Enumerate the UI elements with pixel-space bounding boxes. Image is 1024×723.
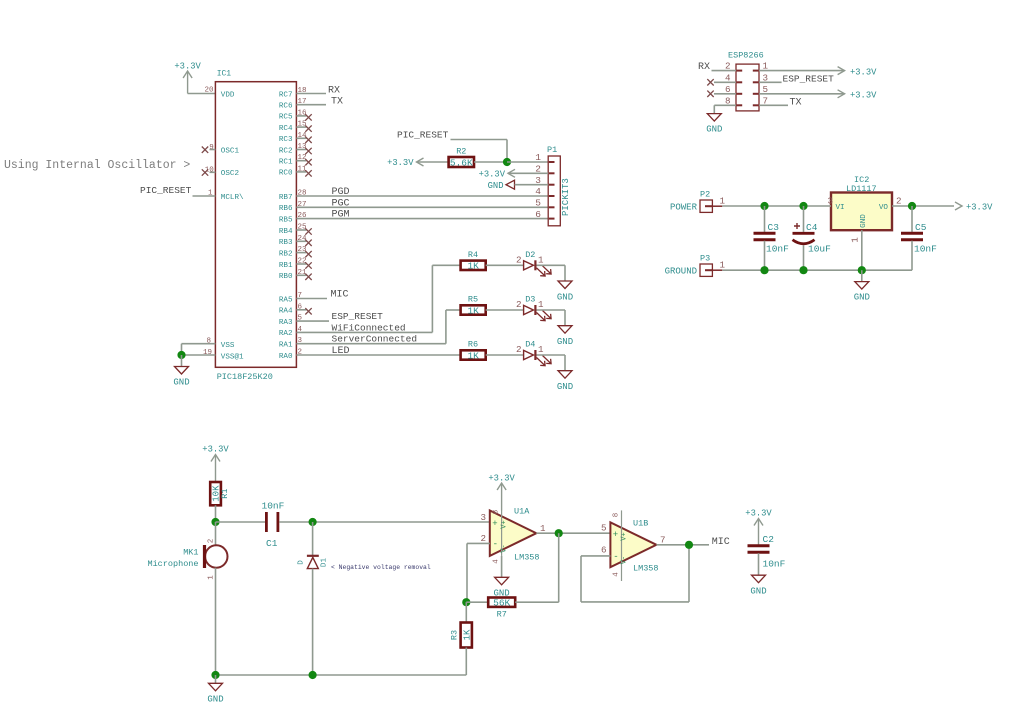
ground GND (ESP) [706,114,722,135]
svg-text:C2: C2 [763,534,775,545]
svg-text:RA5: RA5 [279,296,293,304]
svg-text:RA1: RA1 [279,342,293,350]
wire WiFiConnected riser [431,265,433,332]
resistor R7 [488,598,515,620]
svg-text:R4: R4 [468,250,478,260]
svg-text:20: 20 [204,87,214,95]
svg-text:1K: 1K [467,350,479,361]
svg-text:1: 1 [720,260,726,271]
pin VSS@1 name [221,354,244,362]
wire PGC net [296,206,548,208]
svg-text:RB3: RB3 [279,239,293,247]
wire LED net [296,354,460,356]
svg-text:2: 2 [516,344,522,355]
led D4 [524,340,552,366]
svg-text:V-: V- [501,544,509,552]
label PGD [332,187,350,198]
wire ESP pin1 to +3.3V [759,70,845,72]
svg-text:LM358: LM358 [633,564,659,574]
svg-text:1: 1 [720,196,726,207]
svg-text:R2: R2 [456,147,466,157]
wire PIC_RESET to MCLR [193,195,216,197]
svg-text:10nF: 10nF [914,244,937,255]
svg-text:RB2: RB2 [279,250,293,258]
svg-text:+: + [492,519,497,529]
label LED [332,346,350,357]
svg-text:2: 2 [208,539,216,544]
connector P2 body [700,200,722,212]
wire ESP pin8 to GND [714,105,736,113]
svg-text:RC6: RC6 [279,103,293,111]
wire feedback drop [558,533,560,602]
supply +3.3V (R1) [202,445,229,483]
label IC1 value PIC18F25K20 [217,372,273,382]
wire to GND (IC1) [181,355,183,367]
pin 5 number (ESP) [763,84,769,95]
svg-text:GND: GND [557,382,573,392]
wire D2 to GND [537,265,566,281]
pin MCLR name [221,194,244,202]
junction IC2 GND node [858,266,866,274]
junction C3 top [760,202,768,210]
svg-text:D2: D2 [525,250,535,260]
wire +3.3V to R2 [417,161,449,163]
wire VSS down [181,344,183,355]
svg-text:6: 6 [535,209,541,220]
wire R2 to node [474,161,507,163]
nc mark ESP pin4 [707,79,736,85]
pin 6 number (ESP) [725,84,731,95]
svg-text:GND: GND [557,292,573,302]
ground GND (D2) [557,281,573,302]
regulator IC2 body [831,193,892,231]
svg-text:+3.3V: +3.3V [202,445,229,455]
wire D3 to GND [537,310,566,326]
svg-text:V+: V+ [621,532,629,540]
wire bottom ground rail [216,674,467,676]
wire ServerConnected net [296,343,446,345]
wire PGM net [296,218,548,220]
wire IC2 GND to symbol [861,270,863,281]
label GROUND [665,267,697,277]
svg-text:GND: GND [750,587,766,597]
pin VO name [879,204,889,212]
label PIC_RESET (top) [397,130,449,141]
resistor R3 [450,623,473,648]
pin 8 number (U1B) [613,513,621,518]
wire U1A inv riser [466,543,468,602]
pin OSC2 name [221,170,240,178]
svg-text:C1: C1 [266,538,278,549]
svg-text:C4: C4 [806,222,818,233]
led D2 [524,250,552,276]
wire D4 to GND [537,355,566,371]
pin 3 number (ESP) [763,72,769,83]
resistor R4 [461,250,486,272]
pin 8 number [206,338,211,346]
pin RA3 [279,315,303,327]
svg-text:RB0: RB0 [279,273,293,281]
wire VSS [182,343,216,345]
svg-text:4: 4 [535,186,541,197]
supply +3.3V (C2) [745,509,772,546]
ground GND (D4) [557,371,573,392]
wire D1 drop [312,522,314,556]
svg-text:POWER: POWER [670,203,698,213]
svg-text:1: 1 [850,237,861,243]
svg-text:+3.3V: +3.3V [174,62,201,72]
svg-text:2: 2 [896,196,902,207]
op-amp U1A [490,507,540,563]
wire P2 to IC2 VI [722,205,831,207]
pin 2 number (ESP) [725,61,731,72]
svg-text:WiFiConnected: WiFiConnected [332,322,406,333]
wire IC2 GND pin [861,230,863,270]
svg-text:10nF: 10nF [763,559,786,570]
svg-text:GND: GND [488,181,504,191]
wire PIC_RESET drop [506,140,508,163]
svg-text:MK1: MK1 [183,548,198,558]
ground GND (D3) [557,326,573,347]
pin 4 number (U1B) [613,572,621,577]
svg-text:D3: D3 [525,295,535,305]
pin 1 number (D3) [538,299,544,310]
note negative voltage removal [331,564,431,571]
pin RB0 [279,269,312,281]
junction mic node [211,518,219,526]
wire U1A power down [501,556,503,577]
junction U1B out node [685,541,693,549]
svg-text:MCLR\: MCLR\ [221,194,244,202]
svg-text:P2: P2 [700,190,710,200]
label PIC_RESET at MCLR [140,185,192,196]
svg-text:RA0: RA0 [279,353,293,361]
capacitor C1 [262,501,285,550]
label ServerConnected [332,334,418,345]
wire node to R3 [465,602,467,622]
svg-text:IC1: IC1 [217,70,232,79]
svg-text:C3: C3 [768,222,780,233]
wire MIC net (RA5) [296,298,327,300]
pin 2 number (P1) [535,164,541,175]
svg-text:PGC: PGC [332,198,350,209]
wire rail to GND [215,675,217,683]
svg-text:C5: C5 [915,222,927,233]
svg-text:+: + [613,530,618,540]
pin 2 number (D2) [516,254,522,265]
wire ESP pin3 (ESP_RESET) [759,81,782,83]
pin RB4 [279,224,312,236]
ground GND flag (P1 pin3) [488,180,515,191]
svg-text:+3.3V: +3.3V [488,474,515,484]
pin 8 number (U1A) [493,510,501,515]
wire mic pin2 [215,522,217,545]
svg-text:RB4: RB4 [279,228,293,236]
wire node to C1 [216,521,266,523]
svg-text:+3.3V: +3.3V [387,158,414,168]
supply +3.3V flag (IC2 out) [955,202,993,213]
svg-text:1: 1 [540,523,546,534]
pin 3 number (P1) [535,175,541,186]
svg-text:R5: R5 [468,295,478,305]
pin 2 number (D3) [516,299,522,310]
pin 20 number [204,87,214,95]
svg-text:MIC: MIC [712,537,730,548]
microcontroller IC1 body [215,82,296,368]
svg-text:GND: GND [173,378,189,388]
microphone MK1 [147,545,227,569]
pin 4 number (U1A) [493,559,501,564]
svg-text:8: 8 [493,510,501,515]
pin RA0 [279,349,302,361]
wire R5 to D3 [486,309,524,311]
pin VDD name [221,91,235,99]
wire node to R7 [466,601,488,603]
pin RA4 [279,303,312,315]
svg-text:VI: VI [836,204,845,212]
pin RB7 [279,190,307,202]
pin RC6 [279,98,326,110]
svg-text:ServerConnected: ServerConnected [332,334,418,345]
label MIC (output) [712,537,730,548]
label ESP_RESET (ESP) [783,73,835,84]
junction C3 bottom [760,266,768,274]
ground GND (C2) [750,575,766,596]
svg-text:VO: VO [879,204,889,212]
wire ground rail [722,269,912,271]
label RX [328,85,340,96]
pin 5 number (P1) [535,198,541,209]
wire +3.3V to P1 pin2 [508,172,548,174]
pin 9 number [209,144,214,152]
svg-text:56K: 56K [493,598,510,609]
pin 1 number (IC2 GND) [850,237,861,243]
svg-text:R3: R3 [450,630,460,640]
junction U1A out node [555,529,563,537]
wire U1B output [656,544,709,546]
pin 2 number (IC2) [896,196,902,207]
wire WiFiConnected net [296,331,432,333]
svg-text:P3: P3 [700,254,710,264]
svg-text:+3.3V: +3.3V [850,67,877,77]
wire R3 to rail [465,648,467,676]
ground GND (rail) [207,683,223,704]
svg-text:-: - [493,540,498,550]
wire mic pin1 down [215,568,217,675]
junction rail mic [211,671,219,679]
label IC2 [854,175,869,185]
pin 6 number (P1) [535,209,541,220]
svg-text:-: - [613,552,618,562]
junction C5 top [908,202,916,210]
junction C4 top [799,202,807,210]
svg-text:3: 3 [828,196,834,207]
supply +3.3V flag (R2) [387,158,423,168]
wire ESP_RESET net (RA3) [296,320,329,322]
svg-text:PGD: PGD [332,187,350,198]
svg-text:D: D [298,560,306,565]
svg-text:1: 1 [538,254,544,265]
svg-text:RC5: RC5 [279,114,293,122]
pin RC4 [279,121,312,133]
label MIC (RA5) [331,290,349,301]
svg-text:GND: GND [706,125,722,135]
svg-text:+3.3V: +3.3V [850,91,877,101]
pin 1 number (D4) [538,344,544,355]
svg-text:5.6K: 5.6K [450,157,473,168]
wire ESP pin7 (TX) [759,104,788,106]
connector P1 body [548,156,560,226]
pin RB3 [279,235,312,247]
capacitor C5 [901,206,937,270]
label TX [331,97,343,108]
svg-text:VSS@1: VSS@1 [221,354,244,362]
pin 2 number (MK1) [208,539,216,544]
pin VI name [836,204,845,212]
label LD1117 value [846,184,877,194]
svg-text:LED: LED [332,346,350,357]
label ESP_RESET (RA3) [332,311,384,322]
svg-text:U1A: U1A [514,507,530,517]
pin RA1 [279,337,303,349]
svg-text:RA4: RA4 [279,308,293,316]
pin 10 number [205,167,215,175]
label RX (ESP) [698,62,710,73]
svg-text:PICKIT3: PICKIT3 [561,178,571,216]
svg-text:1K: 1K [467,305,479,316]
svg-text:6: 6 [601,545,607,556]
svg-text:7: 7 [660,535,666,546]
pin RC1 [279,154,312,166]
svg-text:5: 5 [535,198,541,209]
label P2 [700,190,710,200]
label P1 [547,145,557,155]
svg-text:RB6: RB6 [279,205,293,213]
svg-text:U1B: U1B [633,519,648,529]
wire U1B inverting in [581,555,610,557]
pin 3 number (IC2) [828,196,834,207]
svg-text:GND: GND [557,337,573,347]
svg-text:+3.3V: +3.3V [479,170,506,180]
svg-text:D1: D1 [321,558,329,568]
wire R7 to out node [515,601,559,603]
svg-text:RC2: RC2 [279,147,293,155]
svg-text:10nF: 10nF [262,501,285,512]
pin 1 number (U1A) [540,523,546,534]
pin 3 number (U1A) [480,512,486,523]
svg-text:3: 3 [480,512,486,523]
supply +3.3V flag (P1 pin2) [479,169,515,179]
label PICKIT3 vertical [561,178,571,216]
nc mark ESP pin6 [707,91,736,97]
svg-text:RC0: RC0 [279,170,293,178]
svg-text:PIC_RESET: PIC_RESET [140,185,192,196]
pin RC0 [279,165,312,177]
pin 1 number (P1) [535,152,541,163]
wire RX to ESP pin2 [712,70,737,72]
pin 4 number (ESP) [725,72,731,83]
label ESP8266 [728,51,764,61]
svg-text:TX: TX [331,97,343,108]
junction VSS node [177,351,185,359]
supply +3.3V (U1A) [488,474,515,511]
pin 1 number (P3) [720,260,726,271]
svg-text:1K: 1K [463,629,473,640]
supply +3.3V (IC1 VDD) [174,62,201,94]
svg-text:MIC: MIC [331,290,349,301]
svg-text:D4: D4 [525,340,535,350]
svg-text:PIC18F25K20: PIC18F25K20 [217,372,273,382]
wire feedback left drop [580,556,582,602]
svg-text:RX: RX [698,62,710,73]
wire U1A inverting in [467,542,490,544]
svg-text:2: 2 [480,533,486,544]
wire PIC_RESET horizontal [451,139,508,141]
svg-text:RC1: RC1 [279,159,293,167]
diode D1 [298,556,329,569]
junction R7 left node [462,598,470,606]
wire ESP pin5 to +3.3V [759,93,845,95]
label PGM [332,210,350,221]
resistor R5 [461,295,486,317]
svg-text:< Negative voltage removal: < Negative voltage removal [331,564,431,571]
pin RC3 [279,132,312,144]
nc mark OSC1 [202,147,216,153]
ground GND (U1A) [493,577,509,598]
pin 19 number [203,349,212,357]
label WiFiConnected [332,322,406,333]
pin GND name (IC2) [860,214,868,228]
svg-text:GND: GND [207,695,223,705]
label POWER [670,203,698,213]
svg-text:1: 1 [538,344,544,355]
supply +3.3V flag (ESP pin1) [838,67,878,78]
supply +3.3V flag (ESP pin5) [838,90,878,101]
pin RA5 [279,292,302,304]
svg-text:RC4: RC4 [279,125,293,133]
svg-text:OSC2: OSC2 [221,170,240,178]
svg-text:V-: V- [621,556,629,564]
svg-text:8: 8 [613,513,621,518]
ground GND (IC1) [173,367,189,388]
resistor R6 [461,340,486,362]
pin 7 number (U1B) [660,535,666,546]
svg-text:RA2: RA2 [279,330,293,338]
pin 1 number (MK1) [208,575,216,580]
pin VSS name [221,342,235,350]
wire feedback bottom [581,601,689,603]
svg-text:RC3: RC3 [279,136,293,144]
pin 4 number (P1) [535,186,541,197]
capacitor C4 polarized [793,206,832,270]
wire feed to R5 [446,309,461,311]
pin 2 number (D4) [516,344,522,355]
wire feedback right riser [688,545,690,602]
svg-text:LM358: LM358 [514,553,540,563]
wire PGD net [296,195,548,197]
wire feed to R4 [432,264,460,266]
connector P3 body [700,264,722,276]
svg-text:RA3: RA3 [279,319,293,327]
pin 1 number (D2) [538,254,544,265]
op-amp U1B [610,510,658,581]
note text Using Internal Oscillator [4,159,190,172]
svg-text:2: 2 [516,254,522,265]
pin OSC1 name [221,147,240,155]
wire R4 to D2 [486,264,524,266]
svg-text:1K: 1K [467,261,479,272]
pin RC5 [279,109,312,121]
